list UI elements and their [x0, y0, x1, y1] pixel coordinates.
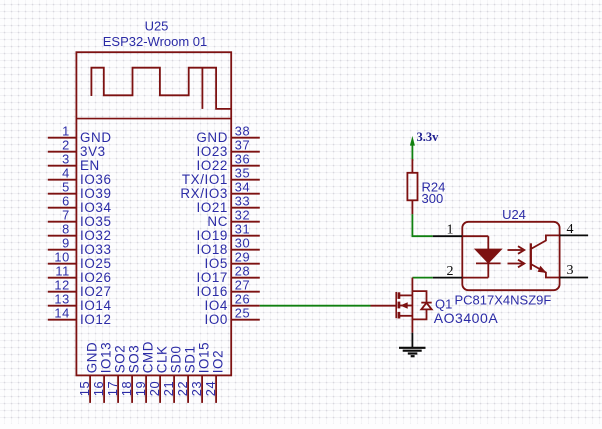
wire: net from U24 pin2 to Q1 drain	[412, 278, 432, 296]
svg-text:CLK: CLK	[155, 345, 170, 373]
svg-text:32: 32	[235, 208, 251, 223]
wire: Q1 source to ground	[411, 333, 413, 348]
svg-text:IO25: IO25	[80, 256, 112, 271]
svg-text:15: 15	[77, 381, 92, 397]
U25 pin 24 (IO2)	[203, 350, 226, 403]
svg-text:13: 13	[54, 292, 70, 307]
svg-text:20: 20	[147, 381, 162, 397]
svg-text:IO14: IO14	[80, 298, 112, 313]
svg-text:2: 2	[447, 264, 454, 279]
svg-text:GND: GND	[85, 342, 100, 374]
U25 pin 38 (GND)	[196, 124, 259, 145]
svg-text:GND: GND	[196, 130, 228, 145]
U25 pin 27 (IO16)	[196, 278, 259, 299]
U25 pin 31 (IO19)	[196, 222, 259, 243]
svg-text:PC817X4NSZ9F: PC817X4NSZ9F	[455, 293, 552, 308]
U25 pin 25 (IO0)	[205, 306, 260, 327]
wire: 3.3v to R24	[411, 159, 413, 161]
U25 pin 23 (IO15)	[189, 342, 212, 403]
U25 pin 35 (TX/IO1)	[182, 166, 260, 187]
U25 pin 36 (IO22)	[196, 152, 259, 173]
svg-text:IO18: IO18	[196, 242, 228, 257]
svg-text:NC: NC	[207, 214, 228, 229]
svg-text:AO3400A: AO3400A	[434, 310, 499, 326]
U24 phototransistor	[531, 235, 560, 277]
U25 pin 30 (IO18)	[196, 236, 259, 257]
svg-text:CMD: CMD	[141, 341, 156, 373]
power flag 3.3v	[410, 130, 439, 159]
svg-text:IO17: IO17	[196, 270, 228, 285]
svg-text:IO35: IO35	[80, 214, 112, 229]
svg-text:IO32: IO32	[80, 228, 112, 243]
svg-text:23: 23	[189, 381, 204, 397]
U25 pin 7 (IO35)	[48, 208, 112, 229]
svg-text:1: 1	[447, 223, 454, 238]
U25 pin 20 (CLK)	[147, 345, 170, 403]
svg-text:IO34: IO34	[80, 200, 112, 215]
U25 pin 9 (IO33)	[48, 236, 112, 257]
svg-text:11: 11	[55, 264, 70, 279]
U25 antenna meander	[91, 68, 231, 109]
svg-text:37: 37	[235, 138, 251, 153]
U24 pin 4	[560, 222, 589, 237]
svg-text:GND: GND	[80, 130, 112, 145]
svg-text:24: 24	[203, 381, 218, 397]
U25 pin 26 (IO4)	[205, 292, 260, 313]
U25 pin 29 (IO5)	[205, 250, 260, 271]
U25 pin 3 (EN)	[48, 152, 100, 173]
svg-text:SD1: SD1	[183, 345, 198, 373]
wire: R24 to U24 pin1	[412, 214, 432, 236]
svg-text:IO0: IO0	[205, 312, 228, 327]
svg-text:27: 27	[235, 278, 251, 293]
svg-text:IO23: IO23	[196, 144, 228, 159]
resistor R24	[407, 159, 417, 214]
U25 pin 5 (IO39)	[48, 180, 112, 201]
svg-text:IO12: IO12	[80, 312, 112, 327]
svg-text:10: 10	[54, 250, 70, 265]
U24 internal LED	[462, 236, 500, 277]
svg-text:5: 5	[62, 180, 70, 195]
svg-text:IO4: IO4	[205, 298, 228, 313]
transistor Q1	[371, 292, 413, 333]
svg-text:35: 35	[235, 166, 251, 181]
U25 pin 14 (IO12)	[48, 306, 112, 327]
U24 coupling arrows	[508, 246, 525, 267]
U25 pin 15 (GND)	[77, 342, 100, 403]
U25 pin 21 (SD0)	[161, 345, 184, 403]
U25 pin 12 (IO27)	[48, 278, 112, 299]
U25 pin 17 (SO2)	[105, 345, 128, 403]
svg-text:19: 19	[133, 381, 148, 397]
U25 pin 37 (IO23)	[196, 138, 259, 159]
U25 pin 18 (SO3)	[119, 345, 142, 403]
U25 pin 6 (IO34)	[48, 194, 112, 215]
U25 pin 4 (IO36)	[48, 166, 112, 187]
U25 pin 2 (3V3)	[48, 138, 106, 159]
svg-text:IO26: IO26	[80, 270, 112, 285]
wire: U25 pin26 IO4 to Q1 gate	[260, 305, 371, 307]
svg-text:25: 25	[235, 306, 251, 321]
U25 pin 28 (IO17)	[196, 264, 259, 285]
svg-text:IO39: IO39	[80, 186, 112, 201]
svg-text:4: 4	[62, 166, 70, 181]
svg-text:IO2: IO2	[211, 350, 226, 373]
svg-text:4: 4	[567, 222, 574, 237]
svg-text:18: 18	[119, 381, 134, 397]
svg-text:22: 22	[175, 381, 190, 397]
U25 pin 34 (RX/IO3)	[180, 180, 259, 201]
svg-text:29: 29	[235, 250, 251, 265]
svg-text:SO2: SO2	[113, 345, 128, 374]
U25 pin 19 (CMD)	[133, 341, 156, 403]
Q1 body diode	[412, 291, 431, 319]
U25 pin 22 (SD1)	[175, 345, 198, 403]
U25 pin 13 (IO14)	[48, 292, 112, 313]
svg-text:IO27: IO27	[80, 284, 112, 299]
svg-text:12: 12	[54, 278, 70, 293]
svg-text:16: 16	[91, 381, 106, 397]
svg-text:EN: EN	[80, 158, 100, 173]
svg-text:30: 30	[235, 236, 251, 251]
svg-text:ESP32-Wroom 01: ESP32-Wroom 01	[103, 34, 208, 49]
svg-text:TX/IO1: TX/IO1	[182, 172, 228, 187]
svg-text:IO21: IO21	[196, 200, 228, 215]
svg-text:38: 38	[235, 124, 251, 139]
svg-text:IO15: IO15	[197, 342, 212, 374]
IC U25 body	[76, 52, 231, 375]
svg-text:IO22: IO22	[196, 158, 228, 173]
svg-text:21: 21	[161, 381, 176, 397]
U25 pin 11 (IO26)	[48, 264, 112, 285]
ground	[399, 348, 426, 356]
U24 pin 3	[560, 263, 589, 278]
U25 pin 16 (IO13)	[91, 342, 114, 403]
svg-text:IO16: IO16	[196, 284, 228, 299]
svg-text:28: 28	[235, 264, 251, 279]
svg-text:17: 17	[105, 381, 120, 397]
svg-text:34: 34	[235, 180, 251, 195]
svg-text:IO19: IO19	[196, 228, 228, 243]
U25 pin 32 (NC)	[207, 208, 259, 229]
svg-text:9: 9	[62, 236, 70, 251]
svg-text:U25: U25	[145, 18, 169, 33]
svg-text:36: 36	[235, 152, 251, 167]
svg-text:26: 26	[235, 292, 251, 307]
svg-text:IO13: IO13	[99, 342, 114, 374]
svg-text:IO5: IO5	[205, 256, 228, 271]
svg-text:IO36: IO36	[80, 172, 112, 187]
U24 pin 1	[433, 223, 463, 238]
svg-text:RX/IO3: RX/IO3	[180, 186, 228, 201]
svg-text:IO33: IO33	[80, 242, 112, 257]
svg-text:300: 300	[422, 191, 444, 206]
svg-text:3: 3	[62, 152, 70, 167]
svg-text:3: 3	[567, 263, 574, 278]
svg-text:1: 1	[62, 124, 70, 139]
svg-text:6: 6	[62, 194, 70, 209]
svg-text:U24: U24	[502, 207, 526, 222]
svg-text:8: 8	[62, 222, 70, 237]
svg-text:31: 31	[235, 222, 251, 237]
U25 pin 1 (GND)	[48, 124, 112, 145]
U25 pin 10 (IO25)	[48, 250, 112, 271]
svg-text:33: 33	[235, 194, 251, 209]
U24 body	[462, 222, 559, 290]
U25 pin 33 (IO21)	[196, 194, 259, 215]
svg-text:14: 14	[54, 306, 70, 321]
svg-text:3.3v: 3.3v	[417, 130, 440, 144]
svg-text:SD0: SD0	[169, 345, 184, 373]
svg-text:3V3: 3V3	[80, 144, 106, 159]
U25 pin 8 (IO32)	[48, 222, 112, 243]
U24 pin 2	[433, 264, 463, 279]
svg-text:SO3: SO3	[127, 345, 142, 374]
svg-text:2: 2	[62, 138, 70, 153]
svg-text:7: 7	[62, 208, 70, 223]
